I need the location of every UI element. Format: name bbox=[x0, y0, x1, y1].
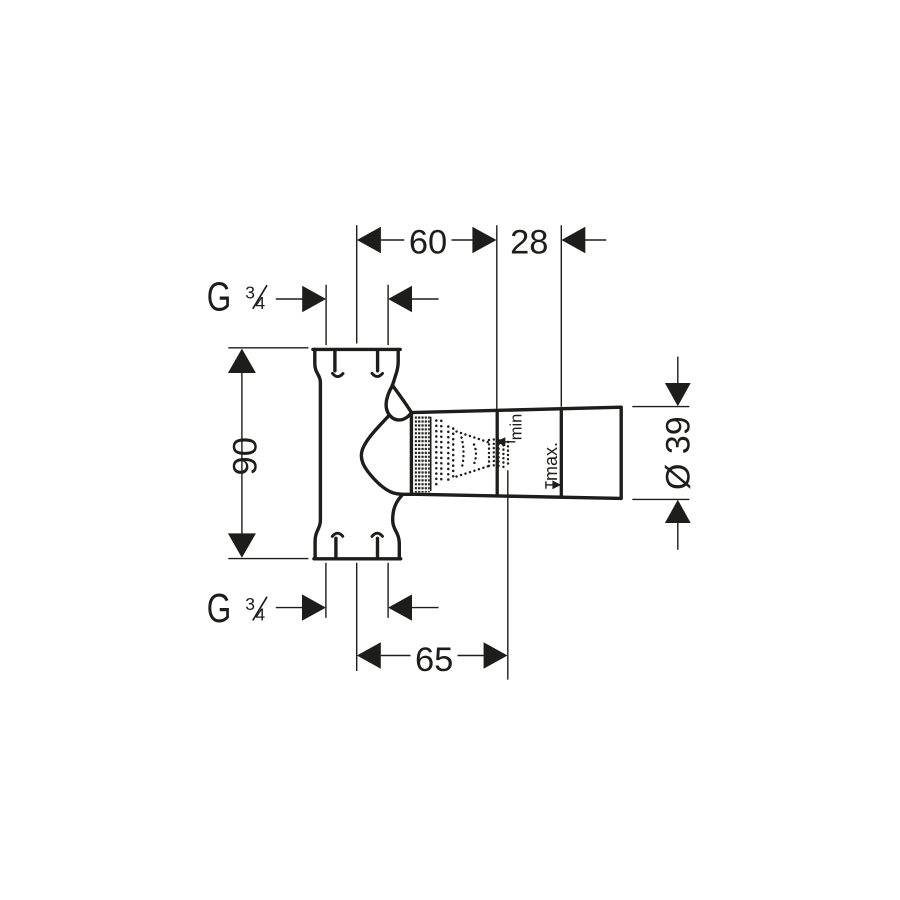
spout section line max bbox=[560, 409, 563, 497]
spout section line min bbox=[496, 411, 499, 496]
svg-text:90: 90 bbox=[226, 437, 264, 475]
min leader tail bbox=[505, 441, 515, 443]
extension line diameter top bbox=[632, 406, 689, 408]
svg-text:4: 4 bbox=[255, 293, 265, 313]
cone bottom dotted taper edge bbox=[457, 465, 493, 477]
funnel bell outer curve bbox=[361, 415, 413, 494]
cone dotted mid arc 1 bbox=[462, 438, 464, 470]
svg-text:65: 65 bbox=[415, 641, 453, 679]
arrow 90 up bbox=[228, 349, 256, 373]
extension line 28 right bbox=[560, 225, 562, 407]
arrow diameter down bbox=[665, 383, 691, 406]
dim diameter tail bottom bbox=[677, 522, 679, 550]
valve body right edge upper bbox=[392, 349, 398, 385]
arrow G34 top left-pointing bbox=[388, 286, 412, 312]
svg-text:3: 3 bbox=[245, 594, 255, 614]
arrow 65 left bbox=[357, 642, 381, 668]
arrow G34 bottom right-pointing bbox=[302, 594, 326, 620]
arrow min left small bbox=[495, 437, 505, 446]
label G 3/4 top bbox=[207, 274, 267, 320]
dim 28 tail right bbox=[585, 239, 606, 241]
arrow max right small bbox=[552, 481, 561, 490]
valve body bottom face bbox=[314, 557, 401, 560]
svg-text:G: G bbox=[207, 585, 232, 631]
extension line 60 left / centerline top bbox=[356, 225, 358, 343]
arrow 90 down bbox=[228, 533, 256, 557]
extension line G34 bottom right bbox=[387, 563, 389, 618]
spout housing outline bbox=[411, 407, 621, 498]
svg-text:Ø 39: Ø 39 bbox=[659, 416, 697, 490]
svg-text:60: 60 bbox=[409, 223, 447, 261]
arrow diameter up bbox=[665, 500, 691, 523]
dim 90 vertical line bbox=[241, 373, 243, 535]
thread hook top-left bar bbox=[333, 351, 336, 371]
cone dotted column 1 bbox=[435, 421, 438, 485]
tip cluster column 5 bbox=[507, 442, 509, 467]
extension line 90 top bbox=[228, 347, 308, 349]
arrow 60 left bbox=[357, 227, 381, 253]
extension line G34 bottom left bbox=[325, 563, 327, 618]
dotted cone group bbox=[436, 421, 453, 485]
valve body top face bbox=[313, 348, 400, 351]
max leader tail bbox=[546, 484, 553, 486]
tip cluster column 3 bbox=[497, 440, 499, 468]
tip cluster column 2 bbox=[493, 440, 495, 469]
arrow G34 bottom left-pointing bbox=[388, 594, 412, 620]
svg-text:3: 3 bbox=[245, 282, 255, 302]
filled dimension arrowheads bbox=[228, 227, 691, 669]
stipple dense band bbox=[414, 416, 430, 493]
internal thread hooks bbox=[332, 351, 382, 557]
dotted tip cluster group bbox=[489, 440, 508, 469]
extension line G34 top right bbox=[387, 285, 389, 345]
dim 60 tail left bbox=[381, 239, 404, 241]
dim G34 top tail left bbox=[276, 298, 303, 300]
thread hook top-right bar bbox=[376, 351, 379, 371]
dim G34 bottom tail right bbox=[412, 607, 439, 609]
valve body left edge bbox=[315, 349, 321, 558]
funnel upper diagonal bbox=[392, 385, 411, 412]
thin dimension and extension lines bbox=[228, 225, 689, 679]
thread hook bottom-left bar bbox=[334, 538, 337, 557]
stipple band right boundary line bbox=[430, 417, 432, 490]
tip cluster column 1 bbox=[488, 440, 490, 468]
valve body right edge lower bbox=[393, 496, 402, 559]
arrow G34 top right-pointing bbox=[302, 286, 326, 312]
svg-text:min: min bbox=[507, 414, 525, 441]
cone top dotted taper edge bbox=[457, 432, 493, 444]
svg-text:G: G bbox=[207, 274, 232, 320]
dim G34 bottom tail left bbox=[276, 607, 303, 609]
extension line 90 bottom bbox=[228, 558, 308, 560]
thread hook bottom-left arc bbox=[332, 533, 343, 536]
svg-text:28: 28 bbox=[510, 223, 548, 261]
extension line 60 right 28 left bbox=[496, 225, 498, 409]
cone dotted column 2 bbox=[440, 421, 443, 484]
cone dotted column 3 bbox=[447, 427, 450, 482]
cone dotted column 4 bbox=[452, 429, 455, 481]
arrow 60 right bbox=[472, 227, 496, 253]
max leader tick bbox=[545, 481, 547, 488]
thread hook bottom-right bar bbox=[376, 538, 379, 557]
label G 3/4 bottom bbox=[207, 585, 267, 631]
teardrop loop bbox=[386, 386, 411, 420]
dim 65 tail right bbox=[458, 655, 484, 657]
dim 65 tail left bbox=[381, 655, 411, 657]
extension line 65 right bbox=[507, 470, 509, 679]
svg-text:4: 4 bbox=[255, 605, 265, 625]
extension line G34 top left bbox=[325, 285, 327, 345]
thread hook top-left arc bbox=[333, 373, 344, 376]
svg-text:max.: max. bbox=[541, 442, 561, 481]
extension line 65 left / centerline bottom bbox=[356, 563, 358, 671]
tip cluster column 4 bbox=[502, 441, 504, 468]
cone dotted mid arc 2 bbox=[474, 445, 476, 465]
thread hook bottom-right arc bbox=[372, 533, 383, 536]
thread hook top-right arc bbox=[372, 373, 383, 376]
dim diameter tail top bbox=[677, 357, 679, 383]
dim 60 tail right bbox=[452, 239, 473, 241]
dimension texts bbox=[207, 223, 698, 679]
arrow 65 right bbox=[484, 642, 508, 668]
dim G34 top tail right bbox=[412, 298, 439, 300]
arrow 28 right bbox=[561, 227, 585, 253]
extension line diameter bottom bbox=[632, 498, 689, 500]
